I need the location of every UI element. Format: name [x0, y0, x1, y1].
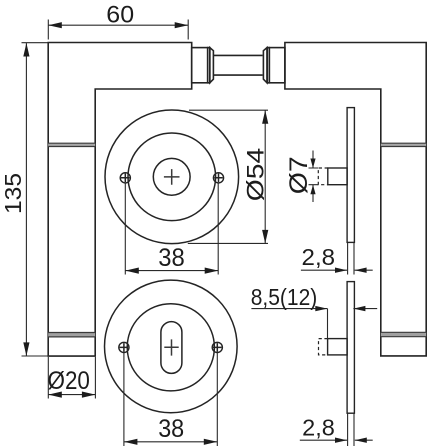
dim 2,8 top line segments [301, 269, 373, 271]
spindle [213, 55, 262, 75]
M7 stud hidden part dashed [318, 168, 328, 185]
dim O54 extension lines [188, 110, 268, 243]
arrowheads dim 38 top [125, 268, 139, 274]
top rosette outer circle [105, 110, 239, 244]
dim 2,8 top extension lines [348, 243, 354, 275]
left grip upper joint [48, 143, 95, 146]
left lever handle outline [48, 43, 192, 357]
handle neck hole circle [153, 158, 190, 195]
arrowheads dim O54 [262, 110, 268, 124]
svg-text:2,8: 2,8 [302, 414, 335, 440]
bottom rosette left screw [119, 342, 129, 352]
svg-text:135: 135 [0, 173, 26, 214]
svg-text:60: 60 [106, 2, 134, 29]
bottom rosette outer circle [105, 280, 238, 413]
dim 38 top line [125, 270, 218, 272]
arrowheads dim 60 [48, 22, 62, 28]
side view lower rosette plate [347, 282, 354, 414]
arrowheads dim 38 bottom [124, 439, 137, 445]
dim 135 extension lines [22, 43, 50, 356]
dim O20 line [48, 394, 95, 396]
dim 2,8 bottom extension lines [348, 414, 354, 446]
svg-text:Ø7: Ø7 [285, 156, 313, 194]
svg-text:Ø20: Ø20 [48, 367, 90, 395]
top rosette right screw [213, 173, 223, 183]
arrowheads dim 135 [23, 43, 29, 57]
svg-text:Ø54: Ø54 [243, 148, 270, 201]
right grip lower joint [381, 332, 426, 336]
dim 2,8 bottom line segments [300, 439, 373, 441]
left collar bevel [210, 48, 214, 83]
dim 135 line [25, 43, 27, 356]
arrowheads dim 8,5(12) [315, 306, 327, 311]
svg-text:2,8: 2,8 [302, 244, 336, 270]
keyhole slot [161, 322, 182, 374]
side view upper rosette plate [347, 108, 354, 243]
dim O7 arrow stems [312, 151, 314, 203]
dim 38 top extension lines [125, 184, 218, 275]
arrowheads dim O20 [48, 392, 62, 398]
svg-text:38: 38 [158, 244, 185, 272]
neck hole center cross [164, 169, 180, 185]
dim 8,5(12) leader [251, 309, 377, 340]
keyhole center cross [164, 339, 178, 355]
keyhole clip hidden part dashed [319, 339, 328, 355]
left collar double line [208, 48, 210, 83]
bottom rosette right screw [212, 342, 222, 352]
keyhole clip solid part [328, 339, 348, 355]
dim 60 extension lines [48, 20, 188, 40]
right collar bevel [263, 48, 267, 83]
right lever handle outline [285, 43, 426, 356]
bottom rosette inner circle [127, 304, 214, 391]
arrowheads dim O7 [310, 159, 315, 169]
dim O20 extension lines [48, 357, 95, 399]
dim O7 tick lines [309, 168, 319, 185]
right grip upper joint [381, 143, 426, 146]
right handle neck [269, 48, 285, 83]
top rosette left screw [120, 173, 130, 183]
dim O54 line [264, 110, 266, 243]
arrowheads dim 2,8 bottom [335, 438, 347, 443]
dim 60 line [48, 24, 188, 26]
svg-text:38: 38 [158, 415, 184, 443]
left handle neck [192, 48, 208, 83]
svg-text:8,5(12): 8,5(12) [251, 284, 318, 310]
left grip lower joint [48, 333, 95, 337]
top rosette inner circle [128, 133, 216, 221]
M7 stud solid part [328, 168, 347, 185]
arrowheads dim 2,8 top [335, 268, 347, 273]
dim 38 bottom extension lines [124, 353, 217, 446]
dim 38 bottom line [124, 441, 217, 443]
right collar double line [267, 48, 269, 83]
